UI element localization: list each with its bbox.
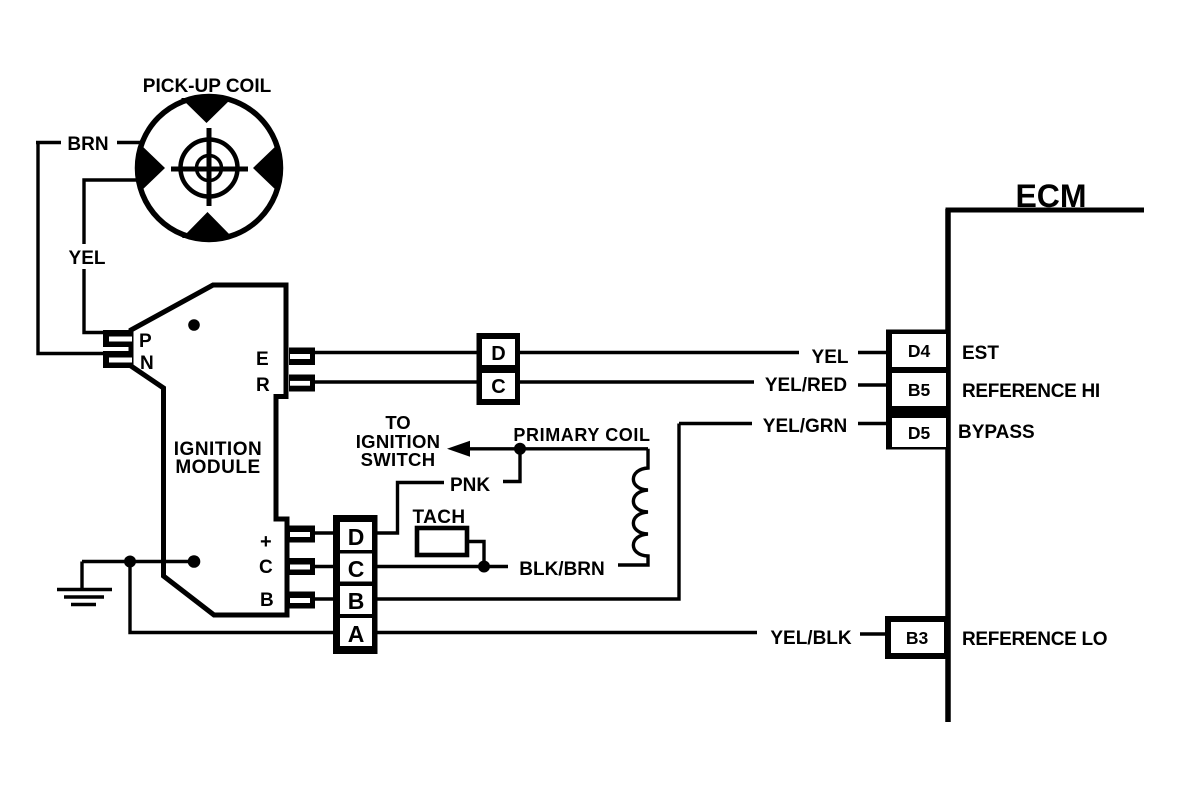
svg-text:B5: B5 [908,380,931,400]
svg-text:YEL: YEL [812,347,849,368]
pin P [103,330,133,347]
wire pin to B box [315,597,335,600]
svg-text:B: B [260,590,274,611]
svg-text:A: A [348,621,365,647]
tach resistor box [417,528,467,555]
junction dot primary coil [514,443,526,455]
svg-text:N: N [140,353,154,374]
wire ground to A row [130,562,335,633]
wire YEL stub to D4 [858,351,887,355]
svg-text:P: P [139,331,152,352]
module lower pin B-row [289,592,315,609]
junction dot 1 [124,556,136,568]
wire to ignition switch with arrow [447,441,648,457]
svg-text:BRN: BRN [67,134,108,155]
ECM vertical line [945,209,951,722]
svg-text:SWITCH: SWITCH [361,449,436,470]
pin N [103,351,133,368]
svg-text:B3: B3 [906,628,929,648]
svg-text:D: D [348,524,365,550]
ECM horizontal line [946,208,1145,213]
ECM connector B3 [885,616,950,659]
svg-text:C: C [348,556,365,582]
wire B row to YEL/GRN vertical [377,424,679,600]
svg-text:YEL/RED: YEL/RED [765,375,847,396]
wire YEL/BLK stub to B3 [860,632,886,635]
ground symbol [57,590,112,605]
module lower pin C-row [289,558,315,575]
wire BRN right segment to coil [117,141,140,144]
wire pin to C box [315,565,335,568]
svg-text:D4: D4 [908,341,931,361]
svg-text:ECM: ECM [1015,178,1086,214]
svg-text:D: D [491,343,505,365]
svg-text:D5: D5 [908,423,931,443]
pin E [289,348,315,366]
wire PNK upper segment [503,449,520,482]
wire C row to BLK/BRN [377,565,508,568]
ECM connector stack D4 B5 D5 [886,330,948,450]
wire E row to D connector [315,351,478,355]
wire PNK lower segment to connector D [377,483,444,534]
wire YEL from coil [84,180,137,244]
svg-text:YEL/BLK: YEL/BLK [770,628,852,649]
svg-text:YEL: YEL [69,248,106,269]
svg-text:TO: TO [385,412,410,433]
wire YEL/RED row to ECM [520,380,754,384]
connector D/C [477,333,521,405]
connector stack DCBA [333,515,378,654]
svg-text:C: C [491,376,505,398]
module lower pin D-row [289,526,315,543]
svg-text:YEL/GRN: YEL/GRN [763,416,847,437]
pin R [289,375,315,392]
junction dot tach [478,561,490,573]
svg-text:MODULE: MODULE [175,457,260,478]
svg-text:PRIMARY COIL: PRIMARY COIL [513,425,650,445]
wire tach to C row [467,542,484,567]
wire A row to B3 [377,631,757,634]
module dot [188,319,200,331]
wire BRN vertical down left side [38,143,103,354]
wire R row to C connector [315,380,478,384]
svg-text:EST: EST [962,343,999,364]
wire YEL/GRN horizontal [679,422,752,426]
wire YEL lower segment to pin P [84,269,103,333]
primary coil inductor [618,449,648,565]
label IGNITION MODULE [174,439,262,478]
ground stub [80,562,83,590]
wire pin to D box [315,531,335,534]
svg-text:BYPASS: BYPASS [958,422,1035,443]
pick-up coil [138,97,281,240]
svg-text:REFERENCE LO: REFERENCE LO [962,629,1107,650]
label TO IGNITION SWITCH [356,412,441,470]
junction dot 2 [188,555,201,568]
svg-text:C: C [259,557,273,578]
svg-text:+: + [260,531,272,553]
svg-text:R: R [256,375,270,396]
svg-text:E: E [256,349,269,370]
ground junction wire [82,560,194,563]
svg-text:BLK/BRN: BLK/BRN [519,559,605,580]
wire YEL/GRN stub to D5 [858,422,887,426]
wire YEL/RED stub to B5 [858,383,889,387]
wire YEL row to ECM [520,351,799,355]
ignition module outline [131,285,287,615]
svg-text:TACH: TACH [413,507,466,528]
svg-text:PNK: PNK [450,475,490,496]
svg-text:REFERENCE HI: REFERENCE HI [962,381,1100,402]
svg-text:B: B [348,588,365,614]
wire BRN left segment [36,141,61,144]
